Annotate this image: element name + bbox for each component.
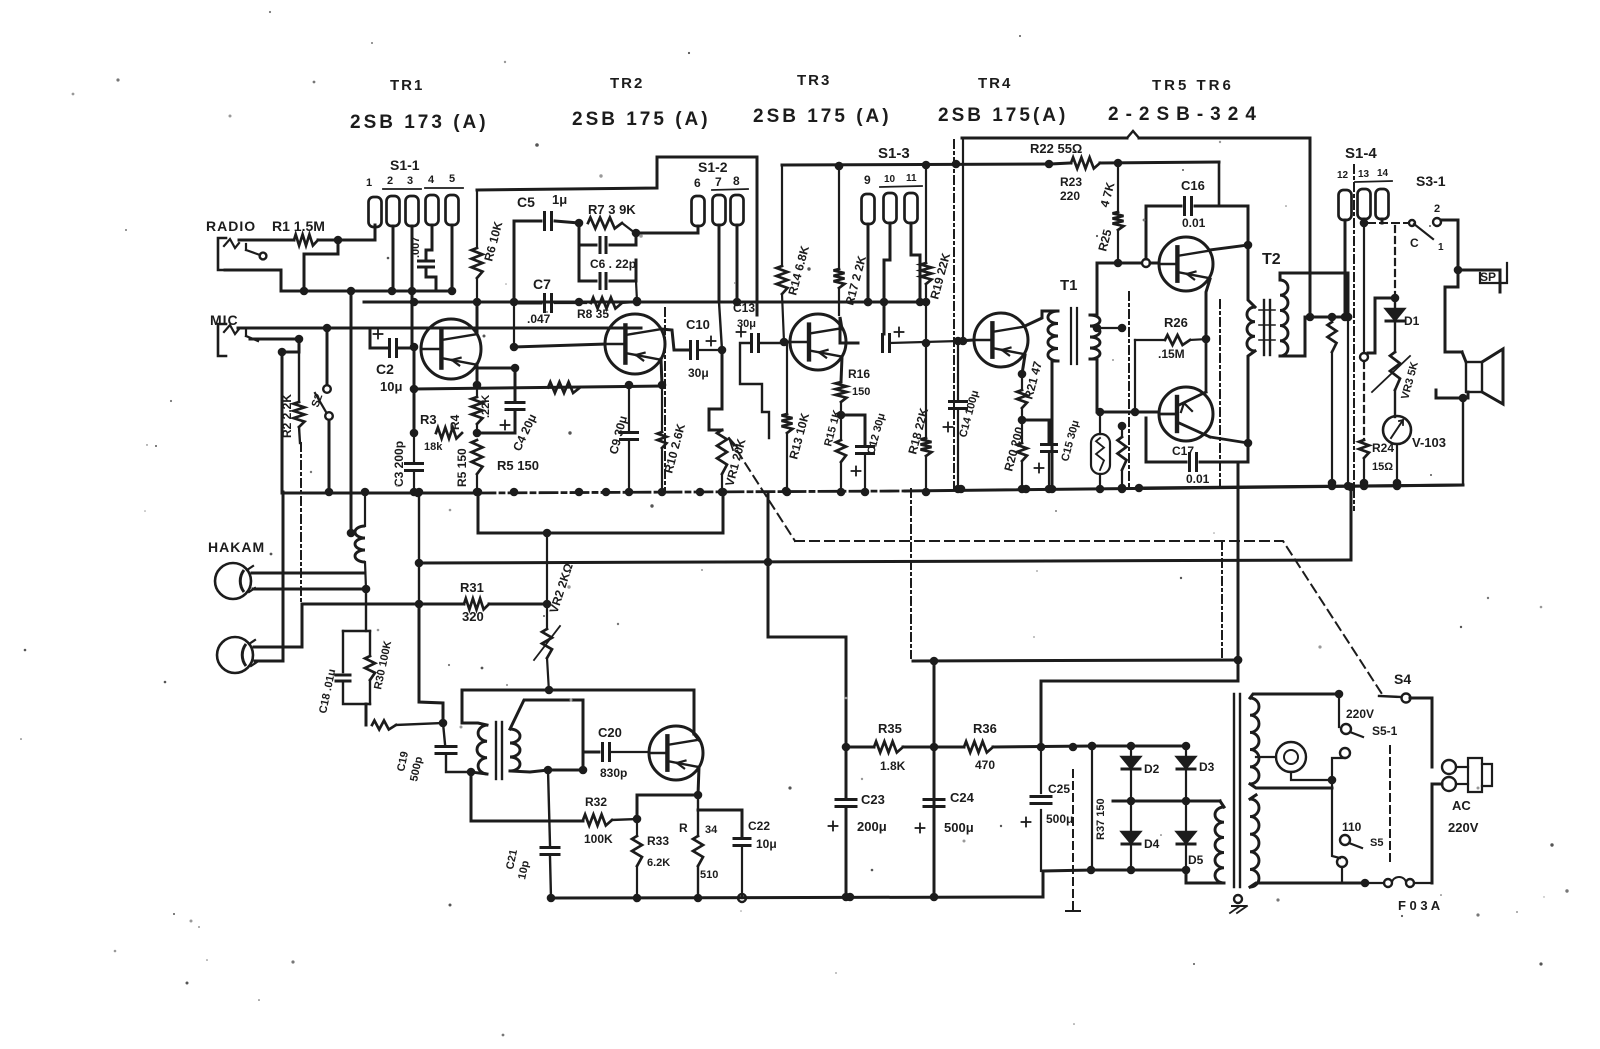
- fuse F0.3A: [1361, 877, 1441, 913]
- svg-text:C6 . 22p: C6 . 22p: [590, 257, 636, 271]
- svg-text:R32: R32: [585, 795, 607, 809]
- wire S1-1 pin5 drop: [448, 225, 457, 295]
- wire speaker return: [1436, 390, 1468, 483]
- svg-text:220: 220: [1060, 189, 1080, 203]
- wire radio to R1: [239, 239, 294, 242]
- wire bus to R31: [415, 488, 424, 604]
- transformer T3 core: [496, 722, 502, 779]
- dashed gang S1-4a: [1128, 292, 1130, 488]
- switch S1-1 contact 5: [446, 195, 459, 225]
- resistor bias small: [366, 704, 443, 730]
- AC plug: [1442, 758, 1492, 792]
- resistor R6 10K: [472, 190, 506, 302]
- capacitor C25 500u: [1022, 747, 1074, 871]
- choke L1: [355, 488, 369, 589]
- wire TR4 emitter: [1018, 355, 1027, 378]
- meter V-103: [1383, 390, 1446, 450]
- switch S1-1 label: [366, 157, 463, 189]
- wire plug lower: [1432, 784, 1442, 883]
- wire lamp junction: [1335, 690, 1344, 727]
- wire radio sleeve: [225, 270, 281, 291]
- wire TR3 collector: [840, 317, 858, 343]
- power transformer core: [1234, 694, 1240, 887]
- wire C5 left branch: [514, 221, 541, 302]
- resistor R4 .22K: [448, 381, 492, 438]
- svg-text:110: 110: [1342, 820, 1362, 834]
- dashed gang S1-2: [664, 308, 666, 490]
- transistor type label TR2: [572, 75, 711, 130]
- resistor R15 1K: [822, 409, 846, 497]
- svg-text:2SB 175(A): 2SB 175(A): [938, 105, 1068, 126]
- wire bridge right step: [1186, 870, 1220, 883]
- dashed gang S1-1: [300, 443, 302, 604]
- wire C2 from selector: [369, 328, 372, 348]
- svg-text:1.8K: 1.8K: [880, 759, 906, 773]
- transistor type label TR5 TR6: [1108, 77, 1263, 125]
- svg-text:R31: R31: [460, 580, 484, 595]
- rail R22 segment: [1050, 158, 1219, 207]
- resistor R17 2.2K: [834, 162, 870, 315]
- osc ground bus: [551, 893, 1043, 902]
- transformer T2 secondary: [1247, 245, 1255, 366]
- variable resistor VR3 5K: [1372, 352, 1421, 401]
- dashed gang S1-4b: [1220, 300, 1222, 659]
- wire TR2 emitter: [661, 359, 662, 385]
- wire y533: [474, 488, 728, 538]
- switch S1-1 contact 1: [369, 197, 382, 227]
- capacitor C3 200p: [392, 433, 423, 496]
- wire output feedback right: [1347, 483, 1356, 558]
- wire R19 R18 link: [922, 302, 931, 438]
- resistor R13 10K: [782, 342, 813, 496]
- wire bridge mid rail: [1113, 797, 1220, 806]
- speaker jack: [1458, 263, 1507, 292]
- resistor R14 6.8K: [777, 165, 813, 342]
- switch S1-2 contact 7: [713, 195, 726, 225]
- wire TR4 collector: [1025, 311, 1052, 326]
- svg-text:C23: C23: [861, 792, 885, 807]
- MIC jack: [218, 324, 258, 356]
- wire L1 node down: [365, 589, 367, 631]
- svg-text:500μ: 500μ: [944, 820, 974, 835]
- switch S1-2 contact 8: [731, 195, 744, 225]
- svg-text:R35: R35: [878, 721, 902, 736]
- wire TR7 collector: [694, 734, 699, 740]
- svg-text:.15M: .15M: [1158, 347, 1185, 361]
- wire TR1 base bias drop: [410, 347, 419, 437]
- capacitor C4 20u: [477, 364, 539, 454]
- capacitor C6 22p lower: [579, 245, 636, 289]
- svg-text:HAKAM: HAKAM: [208, 539, 265, 555]
- switch S3-1: [1409, 203, 1444, 253]
- svg-text:TR3: TR3: [797, 72, 831, 89]
- wire dashed drop: [1066, 743, 1080, 911]
- node TR4 base: [954, 337, 963, 346]
- capacitor C24 500u: [916, 790, 975, 835]
- wire y563 to R35 feed: [764, 493, 851, 901]
- dashed gang S1-3b: [910, 489, 912, 658]
- power transformer secondary: [1215, 801, 1224, 883]
- svg-text:RADIO: RADIO: [206, 218, 256, 234]
- transformer T1 label: [1060, 277, 1078, 294]
- wire jack to speaker: [1445, 270, 1462, 352]
- ground bus main: [282, 484, 1463, 498]
- transistor type label TR3: [753, 72, 892, 127]
- svg-text:TR5 TR6: TR5 TR6: [1152, 77, 1234, 94]
- diode D4: [1122, 801, 1160, 870]
- wire bus step to bridge: [1043, 870, 1091, 897]
- resistor R8 35: [577, 297, 641, 321]
- speaker: [1462, 349, 1503, 404]
- rail top yB: [962, 131, 1310, 317]
- svg-text:D2: D2: [1144, 762, 1160, 776]
- svg-text:1: 1: [1438, 242, 1444, 253]
- capacitor C18 .01u: [0, 0, 370, 715]
- capacitor C20 830p: [598, 725, 649, 780]
- wire TR6 base: [1097, 408, 1252, 448]
- svg-text:R22 55Ω: R22 55Ω: [1030, 141, 1082, 156]
- resistor T2 damping: [1328, 322, 1337, 487]
- wire S1-3 pin9 drop: [864, 224, 873, 306]
- switch S1-1 contact 2: [387, 196, 400, 226]
- resistor R30 100K: [365, 631, 394, 714]
- power transformer primary lower: [1250, 795, 1365, 887]
- svg-text:0.01: 0.01: [1182, 216, 1206, 230]
- wire y389 emitter bias: [414, 381, 666, 393]
- wire S1-3 pin11 drop: [911, 223, 924, 306]
- node TR1 base: [410, 343, 419, 352]
- capacitor C1 .007: [410, 237, 434, 267]
- svg-text:2SB 173 (A): 2SB 173 (A): [350, 112, 489, 133]
- transformer T2 label: [1262, 251, 1281, 268]
- switch S1-1 contact 4: [426, 195, 439, 225]
- svg-text:R24: R24: [1372, 441, 1394, 455]
- wire R7 to S1-2 pin6: [636, 226, 698, 233]
- svg-text:.007: .007: [410, 237, 422, 258]
- transistor TR5: [1159, 237, 1213, 291]
- wire TR3 base: [784, 341, 790, 344]
- resistor R19 22K: [921, 165, 954, 306]
- wire R1 to node: [318, 236, 375, 245]
- svg-text:S1-2: S1-2: [698, 159, 728, 175]
- resistor R7 3.9K: [588, 202, 640, 237]
- svg-text:220V: 220V: [1448, 820, 1479, 835]
- resistor R2 2.2K: [280, 339, 305, 443]
- resistor R1: [294, 235, 318, 246]
- wire bridge bottom rail: [1087, 866, 1191, 875]
- wire S3 chain drop: [1360, 223, 1395, 361]
- capacitor C23 200u: [829, 792, 887, 834]
- wire TR5 emitter: [1206, 279, 1210, 339]
- wire TR2 base: [510, 302, 605, 351]
- resistor R35 1.8K: [846, 721, 938, 773]
- svg-text:320: 320: [462, 609, 484, 624]
- wire D1 top dashed: [1391, 226, 1400, 302]
- switch S1-3 contact 9: [862, 194, 875, 224]
- resistor R34 510: [679, 795, 718, 902]
- wire T1 primary bottom: [1048, 366, 1057, 493]
- wire TR5 base: [1150, 262, 1159, 265]
- wire C6 node drop: [636, 281, 637, 301]
- capacitor C17 0.01: [1146, 418, 1248, 486]
- svg-text:R37 150: R37 150: [1095, 798, 1107, 840]
- svg-text:V-103: V-103: [1412, 435, 1446, 450]
- svg-text:2SB 175 (A): 2SB 175 (A): [572, 109, 711, 130]
- svg-text:TR4: TR4: [978, 75, 1012, 92]
- transistor TR3: [790, 314, 846, 370]
- svg-text:R1 1.5M: R1 1.5M: [272, 218, 325, 234]
- svg-text:10: 10: [884, 174, 896, 185]
- svg-text:2SB 175 (A): 2SB 175 (A): [753, 106, 892, 127]
- svg-text:13: 13: [1358, 169, 1370, 180]
- svg-text:C7: C7: [533, 276, 551, 292]
- resistor R37 150 label: [1095, 798, 1107, 840]
- transformer T2 primary: [1280, 273, 1348, 356]
- switch S1-3 contact 10: [884, 193, 897, 223]
- svg-text:R7 3 9K: R7 3 9K: [588, 202, 636, 217]
- HAKAM label: [208, 539, 265, 555]
- wire TR7 emitter: [698, 767, 699, 795]
- erase head: [215, 563, 255, 599]
- svg-text:500μ: 500μ: [1046, 812, 1073, 826]
- svg-text:100K: 100K: [584, 832, 613, 846]
- wire T2 prim bottom link: [1286, 317, 1332, 356]
- transistor TR1: [421, 319, 481, 379]
- switch S1-2 contact 6: [692, 196, 705, 226]
- svg-text:R23: R23: [1060, 175, 1082, 189]
- capacitor C2 10u: [370, 330, 414, 395]
- wire T3 tap drop: [548, 700, 599, 774]
- svg-text:8: 8: [733, 174, 740, 188]
- resistor R21 47: [1017, 359, 1045, 424]
- resistor R1 1.5M label: [272, 218, 325, 234]
- svg-text:1: 1: [366, 177, 372, 189]
- wire y563 long: [419, 560, 1351, 563]
- variable resistor VR2 2K: [534, 533, 576, 692]
- wire B+ riser: [1041, 462, 1242, 747]
- wire mic hot: [238, 324, 641, 333]
- wire T3 left bottom drop: [467, 768, 583, 821]
- RADIO jack: [218, 238, 266, 270]
- wire S3-1 dashed link: [1368, 222, 1408, 224]
- capacitor C13 30u: [883, 328, 959, 352]
- capacitor C15 30u: [1022, 419, 1082, 493]
- svg-text:TR2: TR2: [610, 75, 644, 92]
- wire TR1 emitter: [476, 364, 479, 385]
- resistor R18 22K: [905, 406, 931, 496]
- dashed gang S1-3a: [953, 140, 955, 489]
- wire S1-1 pin4 drop: [426, 225, 432, 259]
- svg-text:5: 5: [449, 173, 455, 185]
- svg-text:15Ω: 15Ω: [1372, 461, 1393, 473]
- svg-text:R26: R26: [1164, 315, 1188, 330]
- svg-text:12: 12: [1337, 170, 1349, 181]
- svg-text:1μ: 1μ: [552, 192, 567, 207]
- chassis ground: [1230, 895, 1247, 913]
- switch S1-1 contact 3: [406, 196, 419, 226]
- switch S1-4 contact 12: [1339, 190, 1352, 220]
- wire TR1 collector: [476, 302, 479, 334]
- transistor type label TR4: [938, 75, 1068, 126]
- svg-text:D4: D4: [1144, 837, 1160, 851]
- wire C23 drop: [0, 0, 1, 1]
- svg-text:4: 4: [428, 174, 435, 186]
- capacitor C21 10p: [504, 770, 559, 902]
- svg-text:10μ: 10μ: [756, 837, 777, 851]
- svg-text:S1-4: S1-4: [1345, 145, 1377, 162]
- wire bridge top rail: [1092, 742, 1190, 751]
- dashed record-play link: [729, 438, 795, 541]
- resistor R3 18K: [420, 412, 462, 453]
- svg-text:200μ: 200μ: [857, 819, 887, 834]
- switch S1-3 label: [864, 145, 922, 187]
- svg-text:3: 3: [407, 175, 413, 187]
- switch S1-4 contact 13: [1358, 189, 1371, 219]
- svg-text:R4: R4: [448, 414, 462, 430]
- resistor R32 100K: [583, 795, 641, 846]
- svg-text:510: 510: [700, 869, 718, 881]
- wire mic ground drop: [278, 339, 299, 492]
- wire S1-4 pin14 drop: [1381, 219, 1384, 223]
- svg-text:MIC: MIC: [210, 312, 239, 328]
- svg-text:C17: C17: [1172, 444, 1194, 458]
- svg-text:S5-1: S5-1: [1372, 724, 1398, 738]
- wire S1-2 pin7 drop: [719, 225, 722, 350]
- wire TR3 emitter: [841, 357, 842, 382]
- svg-text:14: 14: [1377, 168, 1389, 179]
- wire T2 sec bottom: [1247, 366, 1250, 462]
- resistor R5 150: [455, 440, 539, 496]
- svg-text:470: 470: [975, 758, 995, 772]
- svg-text:30μ: 30μ: [688, 366, 709, 380]
- wire rp head leads: [254, 492, 302, 661]
- resistor R26 .15M: [1135, 315, 1210, 412]
- resistor R36 470: [934, 721, 1096, 772]
- resistor R10 2.6K: [658, 385, 689, 496]
- wire rail drop x963: [959, 138, 968, 345]
- svg-text:R8 35: R8 35: [577, 307, 609, 321]
- svg-text:220V: 220V: [1346, 707, 1374, 721]
- transformer T1 secondary: [1090, 263, 1100, 412]
- transformer T2 core: [1259, 300, 1275, 355]
- dashed VR1 wiper arrow: [729, 438, 764, 493]
- svg-text:30μ: 30μ: [737, 318, 756, 330]
- svg-text:R5 150: R5 150: [497, 458, 539, 473]
- wire TR4 base: [958, 340, 974, 341]
- svg-text:R5 150: R5 150: [455, 448, 469, 487]
- wire selector drop x351: [347, 287, 356, 538]
- transistor TR2: [605, 314, 665, 374]
- switch S1-2 label: [694, 159, 748, 190]
- wire C5 to R7: [555, 219, 583, 228]
- svg-text:R36: R36: [973, 721, 997, 736]
- wire S1-1 pin2 drop: [392, 226, 395, 291]
- resistor R31 320: [302, 580, 551, 624]
- wire y661: [913, 656, 1242, 665]
- capacitor C14 100u: [944, 341, 982, 493]
- wire S1-3 pin10 drop: [884, 223, 890, 334]
- wire osc feedback loop: [462, 686, 694, 734]
- svg-text:AC: AC: [1452, 798, 1471, 813]
- svg-text:T2: T2: [1262, 251, 1281, 268]
- thermistor bias: [1091, 408, 1110, 494]
- svg-text:D1: D1: [1404, 314, 1420, 328]
- capacitor C11 30u: [733, 301, 788, 438]
- svg-text:S1-1: S1-1: [390, 157, 420, 173]
- wire bridge left: [1088, 742, 1097, 870]
- svg-text:F 0 3 A: F 0 3 A: [1398, 898, 1441, 913]
- oscillator transformer T3 right coil: [510, 700, 583, 774]
- rail top y165: [782, 160, 1053, 171]
- wire TR5 collector: [1210, 241, 1252, 250]
- svg-text:R16: R16: [848, 367, 870, 381]
- wire S4 to plug: [1410, 698, 1432, 767]
- svg-text:R: R: [679, 821, 688, 835]
- oscillator transformer T3 left coil: [462, 723, 487, 774]
- svg-text:C3 200p: C3 200p: [392, 441, 406, 487]
- wire S1-4 pin12 drop: [1341, 220, 1350, 321]
- wire center tap drop: [1344, 313, 1353, 483]
- AC label: [1448, 798, 1479, 835]
- svg-text:2: 2: [1434, 203, 1440, 215]
- wire erase head leads: [252, 573, 370, 593]
- svg-text:10μ: 10μ: [380, 379, 402, 394]
- wire S1-2 pin8 drop: [733, 225, 742, 306]
- wire TR2 collector: [661, 329, 688, 350]
- capacitor C6 22p upper: [579, 223, 636, 253]
- resistor R16 150: [836, 367, 871, 419]
- wire S1-3 drop x911 solid: [910, 240, 912, 260]
- svg-text:C24: C24: [950, 790, 975, 805]
- wire harness y302: [364, 298, 701, 307]
- svg-text:9: 9: [864, 173, 871, 187]
- wire bus right segment: [1139, 482, 1463, 491]
- power transformer primary upper: [1250, 694, 1339, 788]
- wire T1 secondary top to TR5 base: [1097, 259, 1150, 267]
- transistor TR6: [1159, 339, 1248, 443]
- svg-text:2: 2: [387, 175, 393, 187]
- svg-text:.047: .047: [527, 312, 551, 326]
- svg-text:C20: C20: [598, 725, 622, 740]
- svg-text:C5: C5: [517, 194, 535, 210]
- capacitor C22 10u: [698, 810, 777, 902]
- svg-text:S4: S4: [1394, 671, 1411, 687]
- svg-text:830p: 830p: [600, 766, 627, 780]
- capacitor C16 0.01: [1146, 178, 1248, 259]
- svg-text:C: C: [1410, 236, 1419, 250]
- switch S3-1 label: [1416, 173, 1446, 189]
- dashed gang S1-4c: [1353, 165, 1355, 510]
- resistor R23 220 label: [1060, 175, 1082, 203]
- volume control VR1 20K: [709, 350, 749, 496]
- svg-text:C16: C16: [1181, 178, 1205, 193]
- svg-text:SP: SP: [1480, 270, 1496, 284]
- wire S1-1 pin3 drop: [411, 226, 414, 347]
- resistor R33 6.2K: [632, 819, 670, 902]
- wire harness y302 right: [701, 298, 926, 307]
- transformer T1 primary: [1048, 311, 1058, 366]
- svg-text:.22K: .22K: [480, 395, 492, 418]
- svg-text:S1-3: S1-3: [878, 145, 910, 162]
- diode D2: [1122, 746, 1160, 801]
- wire S3 to jack: [1441, 220, 1462, 274]
- diode D3: [1177, 746, 1215, 801]
- svg-text:C2: C2: [376, 361, 394, 377]
- wire harness y292: [281, 287, 452, 296]
- svg-text:T1: T1: [1060, 277, 1078, 294]
- switch S5-1: [1332, 707, 1398, 780]
- svg-text:150: 150: [852, 386, 870, 398]
